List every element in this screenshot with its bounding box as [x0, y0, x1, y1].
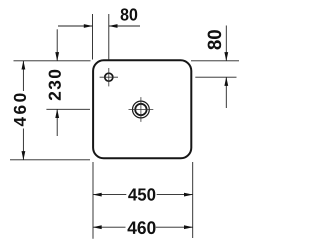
dim 80 top: value label "80" [121, 8, 138, 20]
bottom dims: right extension line [192, 162, 194, 238]
dim 80 right: bottom arrowhead (points up) [224, 77, 228, 86]
dim 460 bottom: left arrowhead (points left) [93, 225, 102, 229]
dim 80 top: left arrowhead (points right) [84, 24, 93, 28]
drain crosshair [129, 97, 154, 122]
dim 460 bottom: value label "460" [128, 221, 156, 234]
dim 80 right: extension line at faucet centerline [195, 76, 236, 78]
basin outline (outer rim, rounded square) [93, 60, 191, 158]
dim 80 top: extension line at basin left edge [92, 14, 94, 60]
dim 80 right: top tail [225, 26, 227, 61]
drain inner circle [135, 104, 146, 115]
dim 460 left: bottom extension line [10, 159, 90, 161]
dim 450 bottom: right arrowhead (points right) [184, 193, 193, 197]
dim 230 left: top arrowhead (points down) [55, 52, 59, 61]
dim 460 bottom: right segment [156, 226, 193, 228]
dim 80 top: right tail [109, 25, 140, 27]
dim 450 bottom: right segment [157, 194, 193, 196]
faucet hole [105, 73, 113, 81]
dim 80 right: bottom tail [225, 77, 227, 108]
dim 80 right: value label "80" (rotated) [208, 30, 222, 49]
dim 460 left: dimension line lower segment [22, 129, 24, 160]
dim 80 top: right arrowhead (points left) [109, 24, 118, 28]
bottom dims: left extension line [92, 162, 94, 239]
dim 230 left: bottom tail [56, 109, 58, 136]
dim 460 left: value label "460" (rotated) [14, 94, 26, 127]
dim 230 left: extension line at drain centerline [46, 108, 90, 110]
dim 230 left: bottom arrowhead (points up) [55, 109, 59, 118]
dim 80 right: extension line from basin top edge [191, 60, 239, 62]
dim 460 left: bottom arrowhead (points down) [22, 151, 26, 160]
dim 460 bottom: left segment [93, 226, 126, 228]
dim 450 bottom: left segment [93, 194, 126, 196]
dim 80 right: top arrowhead (points down) [224, 52, 228, 61]
drain outer circle [133, 101, 150, 118]
faucet hole crosshair [100, 68, 118, 86]
dim 460 left: dimension line upper segment [22, 61, 24, 91]
dim 450 bottom: value label "450" [128, 188, 155, 200]
dim 230 left: value label "230" (rotated) [49, 70, 61, 100]
dim 450 bottom: left arrowhead (points left) [93, 193, 102, 197]
dim 230 left: top tail [56, 29, 58, 61]
dim 460 left: top extension line [14, 60, 91, 62]
dim 460 left: top arrowhead (points up) [22, 61, 26, 70]
dim 460 bottom: right arrowhead (points right) [184, 225, 193, 229]
dim 80 top: left tail [58, 25, 93, 27]
dim 80 top: extension line at faucet centerline [108, 14, 110, 60]
